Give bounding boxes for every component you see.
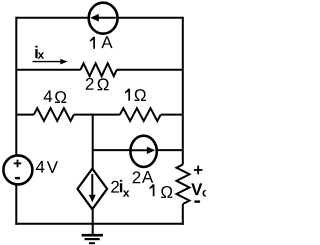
- wire: third row, right of 1 ohm resistor: [161, 114, 183, 116]
- wire: left side vertical, below 4 V source to bottom-left corner: [15, 184, 17, 225]
- voltage source 4 V (circle): [3, 155, 32, 184]
- label 2 ohm: [86, 78, 94, 90]
- label 2 i_x (controlled source value): [111, 181, 119, 193]
- wire: 2 A branch, from middle node to 2 A source: [93, 149, 132, 151]
- label 2 A: [133, 171, 141, 183]
- label i_x for branch current: [35, 46, 37, 58]
- wire: second row, right of 2 ohm resistor: [117, 69, 183, 71]
- label 4 ohm: [44, 90, 53, 102]
- current source 2 A (circle): [130, 136, 156, 167]
- wire: bottom side: [15, 223, 184, 225]
- label 4 V: [36, 161, 45, 173]
- plus sign of output voltage V_o: [194, 166, 203, 175]
- wire: second row, left of 2 ohm resistor: [16, 69, 80, 71]
- minus sign of output voltage V_o: [194, 200, 200, 202]
- wire: third row, between 4 ohm resistor and middle node: [74, 114, 120, 116]
- wire: top side, left of 1 A source: [16, 17, 89, 19]
- wire: middle vertical from dependent source through bottom wire to ground: [92, 208, 94, 234]
- current source 1 A (circle): [89, 3, 118, 34]
- ground symbol bar 3: [89, 242, 95, 244]
- label 1 A: [90, 37, 95, 49]
- dependent current source 2i_x (diamond): [78, 169, 108, 210]
- wire: third row, left of 4 ohm resistor: [16, 114, 34, 116]
- wire: right side vertical, below 1 ohm load to bottom-right corner: [182, 204, 184, 225]
- current source 1 A arrow, points left: [97, 17, 116, 19]
- label 1 ohm (load): [149, 184, 154, 196]
- ground symbol bar 2: [85, 238, 100, 240]
- wire: middle vertical from third row down to dependent source: [92, 114, 94, 170]
- wire: right side vertical, top-right corner down to 1 ohm load: [182, 17, 184, 165]
- dependent source arrow, points down: [91, 174, 93, 197]
- resistor 2 ohm (second row): [81, 63, 117, 76]
- wire: top side, right of 1 A source: [117, 17, 183, 19]
- resistor 4 ohm (third row): [34, 108, 74, 121]
- label V_o: [191, 183, 202, 195]
- wire: left side vertical, top-left corner down to 4 V source: [15, 17, 17, 156]
- resistor 1 ohm load (right side, vertical): [177, 164, 190, 204]
- plus sign inside 4 V source: [14, 160, 22, 168]
- ground symbol bar 1: [82, 234, 103, 237]
- resistor 1 ohm (third row): [120, 108, 161, 121]
- label 1 ohm (third row): [125, 89, 130, 101]
- current source 2 A arrow, points right: [131, 149, 149, 151]
- arrow i_x, points right: [33, 61, 62, 63]
- wire: 2 A branch, from 2 A source to right side: [156, 149, 183, 151]
- minus sign inside 4 V source: [15, 177, 20, 179]
